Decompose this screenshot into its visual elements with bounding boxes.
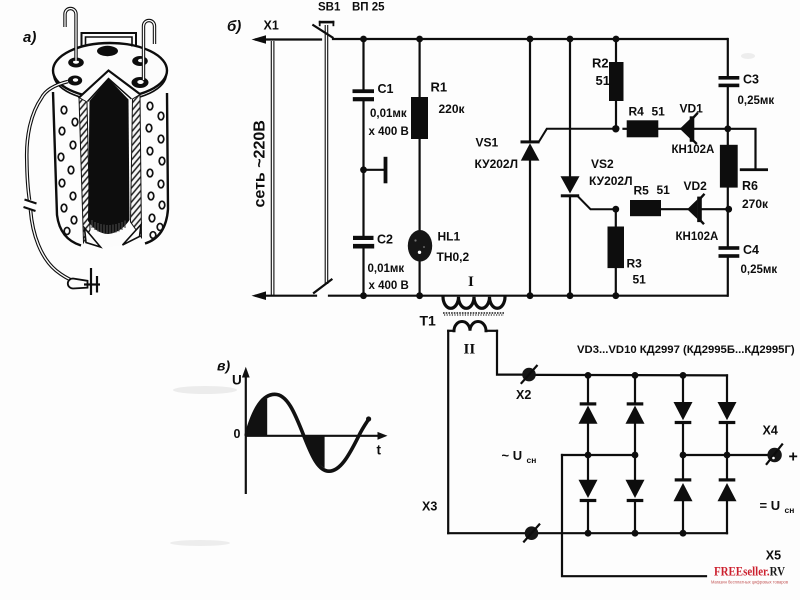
svg-text:сн: сн xyxy=(785,505,795,515)
svg-text:t: t xyxy=(377,443,382,458)
svg-text:51: 51 xyxy=(596,73,610,88)
svg-text:R6: R6 xyxy=(742,179,758,193)
svg-text:Магазин бесплатных цифровых то: Магазин бесплатных цифровых товаров xyxy=(711,580,789,585)
svg-text:сеть ~220В: сеть ~220В xyxy=(252,120,269,207)
svg-text:в): в) xyxy=(217,358,230,374)
svg-text:0,01мк: 0,01мк xyxy=(368,263,405,275)
svg-text:VD2: VD2 xyxy=(684,179,708,193)
svg-text:0,01мк: 0,01мк xyxy=(370,108,407,120)
svg-text:U: U xyxy=(232,373,242,388)
svg-text:X5: X5 xyxy=(766,549,781,563)
svg-text:х 400 В: х 400 В xyxy=(369,280,409,292)
svg-text:VD1: VD1 xyxy=(680,102,704,116)
svg-text:~ U: ~ U xyxy=(502,448,523,463)
svg-text:I: I xyxy=(468,274,474,290)
svg-text:0,25мк: 0,25мк xyxy=(741,264,778,276)
svg-text:270к: 270к xyxy=(742,197,769,211)
svg-text:б): б) xyxy=(227,18,241,35)
svg-text:X2: X2 xyxy=(516,388,531,402)
svg-text:VD3...VD10 КД2997 (КД2995Б...К: VD3...VD10 КД2997 (КД2995Б...КД2995Г) xyxy=(577,344,795,356)
svg-text:X4: X4 xyxy=(763,424,778,438)
svg-text:КУ202Л: КУ202Л xyxy=(589,174,633,188)
svg-text:ВП 25: ВП 25 xyxy=(352,2,385,14)
svg-text:R2: R2 xyxy=(592,56,609,71)
svg-text:КН102А: КН102А xyxy=(676,231,719,243)
svg-text:0: 0 xyxy=(234,427,241,441)
svg-text:0,25мк: 0,25мк xyxy=(738,95,775,107)
svg-text:220к: 220к xyxy=(439,102,466,116)
svg-text:51: 51 xyxy=(652,105,666,119)
svg-text:SB1: SB1 xyxy=(318,2,341,14)
svg-text:C4: C4 xyxy=(743,243,759,257)
svg-text:ТН0,2: ТН0,2 xyxy=(437,250,470,264)
svg-text:C2: C2 xyxy=(377,233,393,247)
svg-text:VS2: VS2 xyxy=(591,157,614,171)
svg-text:R1: R1 xyxy=(431,80,448,95)
svg-text:X3: X3 xyxy=(422,500,437,514)
svg-text:КН102А: КН102А xyxy=(672,144,715,156)
svg-text:R5: R5 xyxy=(634,184,650,198)
svg-text:FREEseller.RV: FREEseller.RV xyxy=(714,565,785,579)
svg-text:51: 51 xyxy=(657,183,671,197)
svg-text:II: II xyxy=(464,342,476,358)
svg-text:R4: R4 xyxy=(629,105,645,119)
svg-text:сн: сн xyxy=(527,455,537,465)
svg-text:HL1: HL1 xyxy=(438,230,461,244)
svg-text:T1: T1 xyxy=(420,313,437,329)
svg-text:51: 51 xyxy=(633,273,647,287)
svg-text:х 400 В: х 400 В xyxy=(369,126,409,138)
svg-text:C3: C3 xyxy=(743,73,759,87)
svg-text:VS1: VS1 xyxy=(476,136,499,150)
svg-text:+: + xyxy=(789,449,798,466)
svg-text:КУ202Л: КУ202Л xyxy=(475,157,519,171)
svg-text:= U: = U xyxy=(760,498,781,513)
svg-text:а): а) xyxy=(23,29,36,46)
svg-text:C1: C1 xyxy=(378,82,394,96)
svg-text:X1: X1 xyxy=(264,19,279,33)
svg-text:R3: R3 xyxy=(627,257,643,271)
